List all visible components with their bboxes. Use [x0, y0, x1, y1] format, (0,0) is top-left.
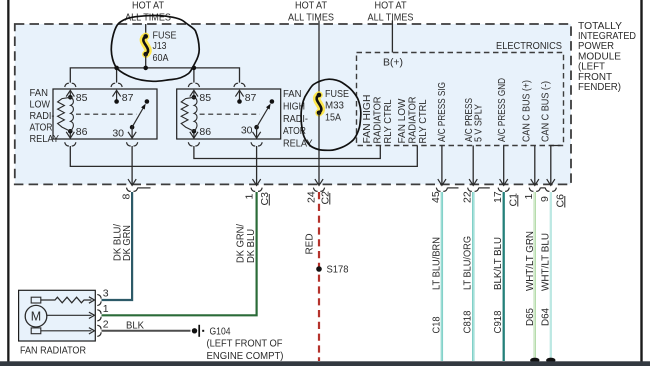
svg-text:B(+): B(+) [383, 57, 403, 69]
connector bracket pin 22 with tail [468, 188, 479, 192]
connector bracket fan pin 2 [97, 325, 101, 336]
wire CAN C BUS (+) to pin 1 [534, 146, 536, 185]
wire WHT/LT BLU CAN C BUS (-) [550, 192, 552, 358]
terminal D64 [546, 358, 555, 363]
svg-text:A/C PRESS SIG: A/C PRESS SIG [436, 82, 448, 142]
svg-text:FAN: FAN [283, 88, 302, 100]
label HOT AT ALL TIMES (middle) [288, 0, 334, 23]
wire WHT/LT GRN CAN C BUS (+) [534, 192, 536, 358]
svg-text:2: 2 [103, 318, 109, 330]
fan pin 2 wire inside [41, 328, 95, 334]
wire hot feed down to fuse J13 [145, 24, 147, 36]
label TOTALLY INTEGRATED POWER MODULE (LEFT FRONT FENDER) [578, 20, 636, 93]
svg-text:C818: C818 [462, 310, 474, 333]
fan radiator box [19, 290, 96, 341]
svg-text:87: 87 [245, 92, 257, 104]
wire B+ bus to relay pins [70, 68, 239, 83]
label FAN LOW RADIATOR RLY CTRL (vertical) [396, 96, 429, 143]
svg-text:CAN C BUS (+): CAN C BUS (+) [521, 80, 533, 142]
svg-text:J13: J13 [153, 40, 167, 52]
connector label C1 [507, 193, 519, 207]
wire A/C PRESS SIG to pin 45 [441, 146, 443, 185]
relay K2 FAN HIGH RADIATOR RELAY box [177, 89, 281, 139]
svg-text:(LEFT FRONT OF: (LEFT FRONT OF [207, 338, 283, 350]
connector bracket relay1 pin85 top [65, 83, 76, 87]
armature dashed link [200, 113, 260, 115]
svg-text:DK BLU: DK BLU [245, 229, 257, 263]
wire RED from pin 24 C2 [318, 192, 320, 361]
svg-text:1: 1 [523, 194, 535, 200]
svg-text:HOT AT: HOT AT [295, 0, 328, 12]
wire relay2-30 down to pin 1 C3 [256, 146, 258, 184]
wire relay1-30 down to pin 8 [131, 146, 133, 184]
svg-text:15A: 15A [325, 111, 341, 123]
connector bracket relay1 pin86 bottom [65, 142, 76, 146]
svg-text:60A: 60A [153, 52, 169, 64]
svg-text:85: 85 [199, 92, 211, 104]
svg-text:30: 30 [241, 125, 253, 137]
wire fuse J13 to bus [145, 54, 147, 68]
relay coil [181, 97, 197, 131]
annotation circle around fuse J13 [111, 16, 199, 82]
svg-text:S178: S178 [327, 264, 349, 276]
svg-text:RADI-: RADI- [30, 110, 55, 122]
wire A/C PRESS GND to pin 17 C1 [503, 146, 505, 185]
TIPM module box [15, 24, 571, 184]
label A/C PRESS 5 V SPLY (vertical) [463, 98, 485, 142]
svg-text:M: M [31, 310, 41, 324]
connector bracket CAN pin 1 with tail [529, 188, 540, 192]
svg-text:ELECTRONICS: ELECTRONICS [496, 40, 562, 52]
svg-text:RLY CTRL: RLY CTRL [382, 99, 394, 143]
pin 86 [66, 126, 87, 138]
svg-text:A/C PRESS GND: A/C PRESS GND [496, 78, 508, 142]
node junction bus/relay2-85 [192, 66, 197, 71]
svg-text:RLY CTRL: RLY CTRL [417, 99, 429, 143]
label HOT AT ALL TIMES (left) [125, 0, 171, 23]
label DK GRN/ DK BLU (vertical) [234, 224, 256, 263]
svg-text:86: 86 [199, 126, 211, 138]
wire hot feed down to fuse M33 [318, 21, 320, 96]
wire BLK/LT BLU pin 17 C1 [503, 192, 505, 361]
svg-text:22: 22 [461, 191, 473, 203]
svg-text:85: 85 [76, 92, 88, 104]
svg-text:87: 87 [122, 92, 134, 104]
connector bracket pin 1 C3 [251, 188, 262, 192]
label FAN LOW RADIATOR RELAY [30, 87, 60, 145]
wire A/C PRESS 5V SPLY to pin 22 [472, 146, 474, 185]
relay K1 FAN LOW RADIATOR RELAY box [53, 89, 157, 139]
svg-text:WHT/LT BLU: WHT/LT BLU [540, 233, 552, 291]
svg-text:D65: D65 [524, 308, 536, 326]
svg-text:WHT/LT GRN: WHT/LT GRN [524, 231, 536, 291]
page frame bottom bar [0, 361, 650, 366]
connector bracket pin 8 with tail [127, 188, 138, 192]
svg-text:30: 30 [112, 128, 124, 140]
svg-text:9: 9 [539, 196, 551, 202]
connector bracket pin 17 C1 [498, 188, 509, 192]
switch arm and pin 30 [241, 99, 274, 138]
wire CAN C BUS (-) to pin 9 C6 [551, 146, 561, 185]
label DK BLU/ DK GRN (vertical) [111, 224, 133, 261]
pin 87 [235, 90, 256, 104]
pin 85 [66, 90, 87, 104]
svg-text:45: 45 [430, 191, 442, 203]
connector bracket relay1 pin30 bottom [127, 142, 138, 146]
switch arm and pin 30 [112, 99, 149, 139]
svg-text:ALL TIMES: ALL TIMES [368, 11, 414, 23]
splice S178 [316, 264, 348, 276]
svg-text:RED: RED [303, 233, 315, 254]
svg-text:BLK: BLK [126, 320, 144, 332]
wire relay1-86 to FAN LOW RLY CTRL [70, 146, 417, 167]
pin 85 [190, 90, 211, 104]
svg-text:ALL TIMES: ALL TIMES [288, 11, 334, 23]
svg-text:RELAY: RELAY [30, 133, 60, 145]
label FAN HIGH RADIATOR RELAY [283, 88, 313, 150]
wire hot feed down to B(+) [391, 21, 393, 53]
pin 86 [190, 126, 211, 138]
svg-text:DK GRN: DK GRN [121, 225, 133, 261]
node junction bus/fuse J13 [143, 66, 148, 71]
connector bracket relay2 pin30 bottom [251, 142, 262, 146]
svg-text:8: 8 [121, 194, 133, 200]
svg-text:ENGINE COMPT): ENGINE COMPT) [207, 350, 284, 362]
svg-text:HOT AT: HOT AT [132, 0, 165, 12]
svg-text:FUSE: FUSE [325, 88, 349, 100]
wire fuse M33 down to pin 24 C2 [318, 113, 320, 184]
wire DK GRN/DK BLU from pin 1 C3 to fan pin 1 [102, 192, 257, 315]
connector label C6 [554, 194, 566, 208]
annotation circle around fuse M33 [301, 79, 361, 150]
svg-text:G104: G104 [210, 326, 231, 338]
terminal D65 [530, 358, 539, 363]
svg-text:FAN RADIATOR: FAN RADIATOR [20, 345, 86, 357]
wire LT BLU/BRN pin 45 [441, 192, 443, 361]
ELECTRONICS sub-module box [357, 40, 564, 146]
fuse J13 60A [143, 30, 176, 64]
ground G104 [192, 325, 284, 362]
connector bracket relay2 pin87 top [234, 83, 245, 87]
connector bracket pin 45 with tail [436, 188, 447, 192]
relay coil [58, 97, 74, 131]
wire DK BLU/DK GRN from pin 8 to fan pin 3 [102, 192, 133, 300]
svg-text:3: 3 [103, 288, 109, 300]
node junction bus/relay1-87 [114, 66, 119, 71]
svg-text:CAN C BUS (-): CAN C BUS (-) [540, 81, 552, 142]
label FAN HIGH RADIATOR RLY CTRL (vertical) [361, 95, 394, 144]
svg-text:RADI-: RADI- [283, 113, 308, 125]
wire BLK fan pin 2 to G104 [102, 330, 191, 332]
svg-text:C18: C18 [430, 316, 442, 333]
connector label C3 [259, 192, 271, 206]
svg-text:LT BLU/ORG: LT BLU/ORG [462, 236, 474, 290]
svg-text:17: 17 [492, 191, 504, 203]
svg-text:FENDER): FENDER) [578, 81, 621, 93]
svg-text:86: 86 [76, 126, 88, 138]
svg-text:24: 24 [306, 191, 318, 203]
svg-text:M33: M33 [325, 99, 344, 111]
page frame left line [7, 0, 9, 366]
motor M [25, 297, 47, 333]
svg-text:C918: C918 [492, 310, 504, 333]
pin 87 [113, 90, 134, 104]
wire relay2-86 to FAN HIGH RLY CTRL [194, 146, 380, 159]
connector bracket relay2 pin85 top [188, 83, 199, 87]
armature dashed link [76, 113, 137, 115]
label HOT AT ALL TIMES (right) [368, 0, 414, 23]
svg-text:D64: D64 [540, 308, 552, 326]
connector label C2 [319, 191, 331, 205]
connector bracket fan pin 3 [97, 294, 101, 305]
connector bracket pin 9 C6 [545, 188, 556, 192]
svg-text:LOW: LOW [30, 99, 51, 111]
svg-text:ATOR: ATOR [30, 122, 53, 134]
fuse M33 15A [317, 88, 349, 123]
svg-text:BLK/LT BLU: BLK/LT BLU [492, 237, 504, 290]
resistor to fan pin 3 [41, 297, 95, 303]
fan pin 1 wire inside [47, 312, 95, 318]
svg-text:5 V SPLY: 5 V SPLY [473, 104, 485, 142]
connector bracket fan pin 1 [97, 310, 101, 321]
page frame right line [640, 0, 642, 366]
svg-text:1: 1 [103, 303, 109, 315]
svg-text:1: 1 [244, 194, 256, 200]
svg-text:LT BLU/BRN: LT BLU/BRN [430, 237, 442, 290]
connector bracket pin 24 C2 [313, 188, 324, 192]
connector bracket relay2 pin86 bottom [188, 142, 199, 146]
svg-text:HOT AT: HOT AT [375, 0, 408, 12]
wire LT BLU/ORG pin 22 [472, 192, 474, 361]
svg-text:FAN: FAN [30, 87, 49, 99]
connector bracket relay1 pin87 top [111, 83, 122, 87]
